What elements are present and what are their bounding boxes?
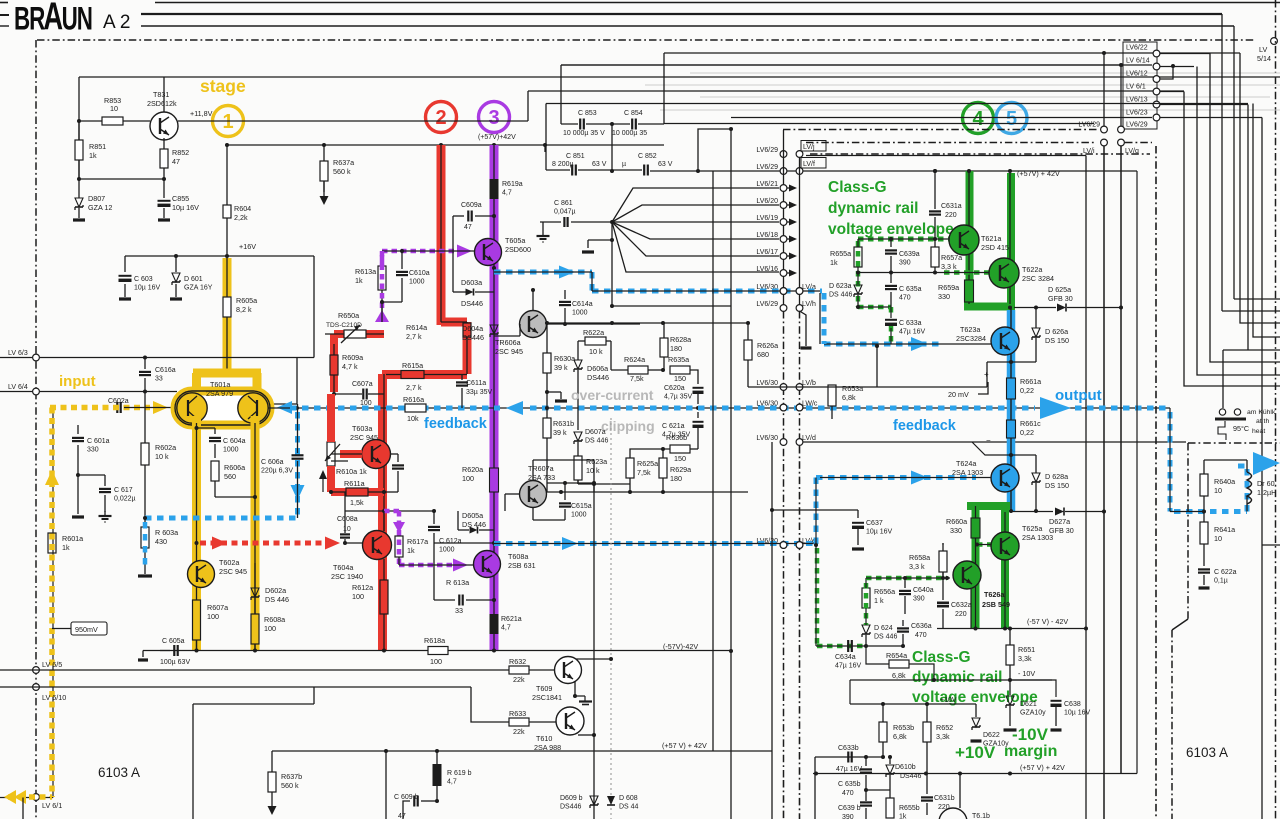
svg-text:430: 430: [155, 537, 167, 546]
capacitor T603 bypass: [397, 454, 399, 462]
svg-text:D807: D807: [88, 194, 105, 203]
BRAUN logo: [14, 0, 92, 39]
diode D626a: [1032, 328, 1040, 337]
capacitor C861: [563, 217, 565, 227]
wire T604a col: [383, 511, 385, 531]
svg-text:10 000µ 35: 10 000µ 35: [612, 130, 647, 137]
svg-text:10k: 10k: [407, 414, 419, 423]
capacitor C617: [99, 488, 111, 490]
svg-text:R661c: R661c: [1020, 419, 1041, 428]
wire output mid node: [1009, 509, 1013, 513]
svg-text:R655a: R655a: [830, 249, 851, 258]
svg-text:+10V: +10V: [955, 743, 996, 762]
svg-text:R604: R604: [234, 204, 251, 213]
svg-text:DS446: DS446: [461, 299, 483, 308]
connector LV 6/1: [33, 794, 40, 801]
svg-text:GZA 12: GZA 12: [88, 203, 112, 212]
stage circle 5: [996, 103, 1027, 134]
blue dashed Lva drop: [822, 293, 827, 344]
transistor T626a: [953, 561, 981, 589]
dash-dot border right block: [1188, 442, 1280, 444]
capacitor C634a: [847, 640, 849, 652]
svg-text:DS 446: DS 446: [585, 438, 608, 445]
yellow path R605a: [223, 258, 232, 374]
wire C633b row: [815, 756, 883, 758]
green dash T625a base: [977, 542, 991, 547]
wire T603a base: [340, 450, 362, 458]
svg-text:R611a: R611a: [344, 479, 365, 488]
capacitor C632a: [942, 578, 944, 600]
svg-text:DS 44: DS 44: [619, 804, 639, 811]
svg-text:R606a: R606a: [224, 463, 245, 472]
svg-text:T6.1b: T6.1b: [972, 813, 990, 819]
resistor R623a: [577, 442, 579, 456]
purple arrow up: [375, 310, 389, 322]
resistor R651: [1009, 629, 1011, 646]
resistor R637b: [271, 751, 273, 772]
transistor T604a: [363, 531, 392, 560]
svg-text:33: 33: [155, 376, 163, 383]
page top rule 2: [141, 13, 1222, 15]
feedback wire main: [268, 407, 1170, 409]
svg-text:R617a: R617a: [407, 537, 428, 546]
svg-text:950mV: 950mV: [75, 625, 98, 634]
svg-text:2SC 945: 2SC 945: [350, 433, 378, 442]
wire mid verticals: [1103, 146, 1105, 819]
red left loop: [334, 330, 384, 338]
wire C606 link: [297, 404, 299, 453]
wire C612a bottom: [434, 542, 494, 544]
svg-text:1k: 1k: [899, 814, 907, 819]
yellow path splitter: [193, 369, 261, 378]
capacitor C637: [770, 508, 774, 512]
connector circles on feedback row: [780, 404, 787, 411]
svg-text:10: 10: [1214, 534, 1222, 543]
svg-text:10 k: 10 k: [586, 466, 600, 475]
svg-text:2,2k: 2,2k: [234, 213, 248, 222]
resistor R661c: [1007, 420, 1016, 438]
svg-text:1k: 1k: [407, 546, 415, 555]
svg-text:C 612a: C 612a: [439, 538, 462, 545]
resistor R657a: [934, 239, 936, 247]
svg-text:A 2: A 2: [103, 12, 130, 33]
svg-text:100: 100: [264, 624, 276, 633]
wire bottom mid links: [866, 789, 890, 791]
wire stage2 center: [440, 145, 442, 322]
wire lower rail -57: [937, 628, 1086, 630]
svg-text:(-57 V) - 42V: (-57 V) - 42V: [1027, 617, 1068, 626]
capacitor C853: [579, 119, 581, 130]
yellow dashed bottom exit: [8, 794, 52, 800]
resistor R611a: [331, 491, 346, 493]
svg-text:D607a: D607a: [585, 429, 606, 436]
svg-text:C631a: C631a: [941, 203, 962, 210]
wire T605a base: [382, 250, 475, 252]
right edge dash-dot border: [1275, 0, 1277, 819]
svg-text:R630a: R630a: [554, 354, 575, 363]
wire LV column verticals: [783, 130, 785, 311]
svg-text:10 000µ 35 V: 10 000µ 35 V: [563, 130, 605, 137]
svg-text:LV6/18: LV6/18: [756, 232, 778, 239]
svg-text:DS446: DS446: [560, 804, 582, 811]
svg-text:R626a: R626a: [757, 341, 778, 350]
wire supply box corner: [560, 65, 562, 124]
svg-text:C607a: C607a: [352, 381, 373, 388]
svg-text:2SD612k: 2SD612k: [147, 99, 177, 108]
svg-text:dynamic rail: dynamic rail: [828, 200, 918, 217]
svg-text:3,3 k: 3,3 k: [909, 562, 925, 571]
resistor R633: [509, 718, 529, 726]
svg-text:(+57V) + 42V: (+57V) + 42V: [1017, 169, 1060, 178]
resistor R652: [926, 704, 928, 722]
svg-text:D603a: D603a: [461, 278, 482, 287]
svg-text:+16V: +16V: [239, 242, 256, 251]
svg-text:R851: R851: [89, 142, 106, 151]
wire R606a to right col: [215, 496, 255, 498]
svg-text:LV/h: LV/h: [802, 301, 816, 308]
wire main rail y145: [227, 144, 664, 146]
svg-text:LV 6/3: LV 6/3: [8, 350, 28, 357]
svg-text:R628a: R628a: [670, 335, 691, 344]
svg-text:63 V: 63 V: [592, 161, 607, 168]
capacitor C610a: [401, 251, 403, 269]
yellow dashed input: [50, 405, 150, 411]
wire y704 row: [193, 703, 314, 705]
diode D601: [175, 256, 177, 272]
capacitor C621a: [697, 412, 699, 418]
blue path end bar: [138, 574, 152, 577]
svg-text:LV/g: LV/g: [1125, 148, 1139, 155]
resistor R625a: [629, 478, 631, 492]
svg-text:C640a: C640a: [913, 587, 934, 594]
purple dashed bottom: [399, 563, 455, 568]
resistor R631b: [546, 408, 548, 418]
long rail LV6/10: [0, 686, 471, 688]
svg-text:330: 330: [87, 447, 99, 454]
red wire T603 loop: [327, 394, 335, 442]
svg-text:10µ 16V: 10µ 16V: [134, 285, 161, 292]
svg-text:R653a: R653a: [842, 384, 863, 393]
connector circles on LVe row: [780, 542, 787, 549]
resistor R640a: [1200, 474, 1208, 496]
svg-text:(+57 V) + 42V: (+57 V) + 42V: [662, 741, 707, 750]
svg-text:10µ 16V: 10µ 16V: [866, 529, 893, 536]
wire env mid: [857, 295, 859, 307]
diode D622: [975, 704, 977, 717]
wire LVb row: [748, 386, 987, 388]
svg-text:47µ 16V: 47µ 16V: [899, 329, 926, 336]
svg-text:R637b: R637b: [281, 772, 302, 781]
fan node: [610, 220, 614, 224]
svg-text:C636a: C636a: [911, 623, 932, 630]
svg-text:C614a: C614a: [572, 301, 593, 308]
svg-text:LV/j: LV/j: [803, 144, 815, 151]
svg-text:T621a: T621a: [981, 234, 1001, 243]
diode D627a: [1055, 508, 1064, 516]
svg-text:0,047µ: 0,047µ: [554, 209, 576, 216]
svg-text:R657a: R657a: [941, 253, 962, 262]
svg-text:LV6/29: LV6/29: [756, 301, 778, 308]
svg-text:R619a: R619a: [502, 181, 523, 188]
wire row R624a: [611, 369, 628, 371]
wire purple branch node: [382, 509, 386, 513]
fan wires to LV rows: [612, 188, 779, 222]
wire T601a bias bridge: [195, 426, 199, 430]
svg-text:10µ 16V: 10µ 16V: [172, 203, 199, 212]
ground C603: [119, 297, 131, 300]
svg-text:2SD600: 2SD600: [505, 245, 531, 254]
wire T609 emitter gnd: [573, 694, 577, 698]
ground C617: [104, 511, 106, 516]
wire LV/i LV/g drops: [1103, 146, 1105, 819]
resistor R635a: [670, 366, 690, 374]
diode D624: [862, 625, 870, 634]
capacitor C855: [163, 179, 165, 198]
svg-text:T608a: T608a: [508, 552, 528, 561]
wire +supply top rail y77: [79, 76, 1280, 78]
svg-text:560: 560: [224, 472, 236, 481]
svg-text:C 854: C 854: [624, 110, 643, 117]
frame dash-dot top border: [37, 39, 1254, 41]
svg-text:220µ 6,3V: 220µ 6,3V: [261, 468, 293, 475]
svg-text:D602a: D602a: [265, 586, 286, 595]
resistor R619a: [490, 179, 499, 199]
capacitor C622a: [1203, 544, 1205, 566]
svg-text:feedback: feedback: [424, 416, 488, 432]
wire under green loop: [815, 545, 817, 646]
svg-text:LV6/20: LV6/20: [756, 198, 778, 205]
svg-text:2SC 945: 2SC 945: [495, 347, 523, 356]
svg-text:R609a: R609a: [342, 353, 363, 362]
svg-text:2SB 631: 2SB 631: [508, 561, 536, 570]
svg-text:GFB 30: GFB 30: [1048, 294, 1073, 303]
svg-text:D 608: D 608: [619, 795, 638, 802]
wire LV/h ground: [800, 311, 807, 346]
svg-text:R616a: R616a: [403, 395, 424, 404]
svg-text:R650a: R650a: [338, 311, 359, 320]
svg-text:2SC 1940: 2SC 1940: [331, 572, 363, 581]
svg-text:390: 390: [842, 814, 854, 819]
wire LV6/12 link: [1160, 66, 1173, 79]
page top rule 1: [155, 2, 1280, 4]
capacitor C620a: [693, 387, 704, 389]
wire y91: [528, 90, 1184, 92]
green thick rails lower: [967, 502, 1010, 510]
svg-text:2,7 k: 2,7 k: [406, 383, 422, 392]
green dashed envelope top: [858, 237, 950, 242]
transistor T625a: [991, 532, 1019, 560]
svg-text:0,1µ: 0,1µ: [1214, 578, 1228, 585]
svg-text:LV/i: LV/i: [1083, 148, 1095, 155]
transistor T608a: [474, 551, 501, 578]
ground D807: [73, 218, 85, 221]
long rail LV6/5: [0, 669, 509, 671]
svg-text:LV6/22: LV6/22: [1126, 45, 1148, 52]
svg-text:2SC1841: 2SC1841: [532, 693, 562, 702]
svg-text:over-current: over-current: [571, 387, 654, 403]
svg-text:D 601: D 601: [184, 276, 203, 283]
wire top lines y65 y78: [561, 64, 1152, 66]
resistor R653b: [882, 704, 884, 722]
svg-text:2: 2: [435, 107, 446, 129]
svg-text:1000: 1000: [571, 512, 587, 519]
svg-text:T625a: T625a: [1022, 524, 1042, 533]
wire T609 collector: [576, 658, 611, 660]
faint scan lines: [690, 72, 1280, 74]
svg-text:R613a: R613a: [355, 267, 376, 276]
svg-text:R654a: R654a: [886, 651, 907, 660]
resistor R851: [78, 121, 80, 140]
wire LV6/14 link: [1160, 66, 1194, 68]
svg-text:T624a: T624a: [956, 459, 976, 468]
svg-text:7,5k: 7,5k: [637, 468, 651, 477]
capacitor C604a: [209, 437, 221, 439]
resistor R661a: [1007, 378, 1016, 399]
blue arrow output right: [1040, 397, 1071, 419]
red dashed over-current feed: [195, 541, 199, 545]
transistor T605a: [475, 239, 502, 266]
svg-text:TR606a: TR606a: [495, 338, 521, 347]
svg-text:6,8k: 6,8k: [892, 671, 906, 680]
blue dashed to speaker loop: [1174, 509, 1247, 514]
svg-text:R614a: R614a: [406, 323, 427, 332]
blue dashed C606a branch: [295, 412, 300, 518]
resistor R653a: [831, 385, 833, 387]
svg-text:T609: T609: [536, 684, 552, 693]
svg-text:4,7: 4,7: [502, 190, 512, 197]
inductor Dr601: [1247, 472, 1252, 504]
svg-text:Class-G: Class-G: [828, 179, 887, 196]
resistor R607a: [196, 640, 198, 650]
svg-text:33µ 35V: 33µ 35V: [466, 389, 493, 396]
svg-text:10: 10: [343, 526, 351, 533]
svg-text:D622: D622: [983, 732, 1000, 739]
frame dash-dot left border: [35, 40, 37, 819]
transistor T623a: [991, 327, 1019, 355]
svg-text:R601a: R601a: [62, 534, 83, 543]
svg-text:R621a: R621a: [501, 616, 522, 623]
diode D608b: [607, 796, 615, 805]
svg-text:TR607a: TR607a: [528, 464, 554, 473]
svg-text:R608a: R608a: [264, 615, 285, 624]
svg-text:39 k: 39 k: [554, 363, 568, 372]
wire T605a emitter node: [492, 266, 496, 270]
svg-text:C638: C638: [1064, 701, 1081, 708]
transistor T621b: [939, 808, 967, 819]
yellow arrow input: [153, 401, 168, 414]
wire env lower right: [942, 572, 944, 578]
svg-text:R612a: R612a: [352, 583, 373, 592]
svg-text:R610a 1k: R610a 1k: [336, 467, 367, 476]
capacitor C636a: [866, 645, 903, 647]
svg-text:5: 5: [1006, 108, 1017, 130]
svg-text:DS 446: DS 446: [874, 634, 897, 641]
svg-text:470: 470: [842, 790, 854, 797]
wire +57 rail right: [933, 169, 937, 173]
svg-text:2SA 1303: 2SA 1303: [952, 468, 983, 477]
svg-text:7,5k: 7,5k: [630, 374, 644, 383]
svg-text:10 k: 10 k: [589, 347, 603, 356]
svg-text:2SA 733: 2SA 733: [528, 473, 555, 482]
svg-text:R602a: R602a: [155, 443, 176, 452]
arrow small up: [322, 478, 324, 492]
wire T604a base: [345, 542, 363, 544]
svg-text:R605a: R605a: [236, 296, 257, 305]
svg-text:LV 6/1: LV 6/1: [1126, 84, 1146, 91]
wire LV6/1 link: [1160, 91, 1184, 93]
wire under yellow input line: [52, 408, 54, 798]
red arrow into T604a: [325, 537, 340, 550]
svg-text:560 k: 560 k: [333, 167, 351, 176]
wire T624a top link: [1009, 453, 1013, 457]
svg-text:R655b: R655b: [899, 805, 920, 812]
wire thermal branch: [1222, 350, 1224, 408]
svg-text:T602a: T602a: [219, 558, 239, 567]
svg-text:stage: stage: [200, 76, 246, 96]
svg-text:clipping: clipping: [601, 418, 655, 434]
svg-text:C 852: C 852: [638, 153, 657, 160]
svg-text:20 mV: 20 mV: [948, 390, 969, 399]
svg-text:63 V: 63 V: [658, 161, 673, 168]
stage circle 3: [479, 102, 510, 133]
wire stack links: [1103, 53, 1105, 126]
blue dashed into T623a: [824, 342, 940, 347]
wire y751 rail: [272, 750, 713, 752]
svg-text:DS446: DS446: [587, 373, 609, 382]
wire island top: [1204, 459, 1247, 461]
svg-text:4,7: 4,7: [501, 625, 511, 632]
ground fan: [588, 239, 612, 241]
green dash T622a base: [944, 270, 991, 275]
svg-text:C 617: C 617: [114, 487, 133, 494]
resistor R622a: [585, 337, 606, 345]
svg-text:560 k: 560 k: [281, 781, 299, 790]
resistor R613a purple: [381, 251, 383, 266]
svg-text:100: 100: [430, 657, 442, 666]
svg-text:1000: 1000: [572, 310, 588, 317]
wire C631b: [926, 774, 928, 795]
svg-text:680: 680: [757, 350, 769, 359]
svg-text:A: A: [43, 0, 63, 39]
svg-text:(-57V)-42V: (-57V)-42V: [663, 642, 698, 651]
green dashed env lower: [866, 576, 947, 581]
blue dashed feedback main: [290, 406, 500, 411]
svg-text:DS 446: DS 446: [265, 595, 289, 604]
svg-text:C 635a: C 635a: [899, 286, 922, 293]
capacitor C640a: [904, 578, 906, 588]
red arrow 1: [212, 537, 227, 550]
svg-text:D 628a: D 628a: [1045, 472, 1068, 481]
resistor R624a: [628, 366, 648, 374]
purple arrow down small: [393, 522, 405, 533]
svg-text:C620a: C620a: [664, 385, 685, 392]
svg-text:C 633a: C 633a: [899, 320, 922, 327]
page top rule 3: [141, 25, 1234, 27]
resistor R604: [226, 218, 228, 256]
wire island bottom: [1203, 496, 1205, 522]
svg-text:R653b: R653b: [893, 723, 914, 732]
green dashed lower loop: [815, 548, 820, 646]
svg-text:GZA10y: GZA10y: [1020, 710, 1046, 717]
svg-text:47: 47: [464, 224, 472, 231]
LV right stack box: [1123, 42, 1157, 129]
svg-text:LV6/19: LV6/19: [756, 215, 778, 222]
blue dashed into T624a: [816, 475, 976, 480]
svg-text:T603a: T603a: [352, 424, 372, 433]
resistor R628a: [663, 323, 665, 338]
svg-text:C639a: C639a: [899, 251, 920, 258]
svg-text:1000: 1000: [409, 279, 425, 286]
